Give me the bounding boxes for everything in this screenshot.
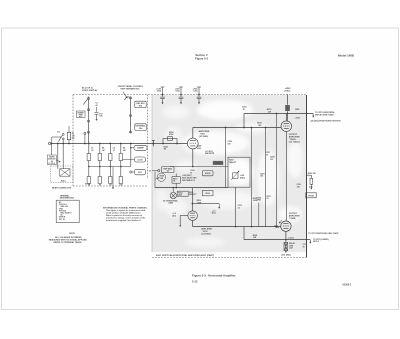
wire grid branch right — [192, 203, 219, 205]
label OUTPUT AMPLIFIER V202A — [289, 134, 300, 144]
svg-text:39: 39 — [303, 246, 305, 248]
junction feedback top — [276, 113, 278, 115]
junction cathode node — [192, 166, 194, 168]
svg-text:SEE NOTE: SEE NOTE — [205, 153, 215, 155]
node board edge terminal — [158, 170, 160, 172]
svg-text:15: 15 — [266, 154, 268, 156]
switch S2 wiper arm — [83, 99, 87, 105]
wire S1 branch to bus — [51, 137, 53, 144]
svg-text:SEE TABLE 5-2: SEE TABLE 5-2 — [182, 179, 195, 182]
resistor R226 label — [257, 197, 262, 201]
junction H7 at gain pot — [172, 187, 174, 189]
svg-text:1M: 1M — [164, 149, 167, 151]
resistor R217 label — [229, 160, 237, 164]
capacitor C209 label — [227, 141, 231, 145]
junction H10 at board edge — [306, 239, 308, 241]
svg-text:(DC): (DC) — [172, 215, 176, 217]
switch S2 contact 1 — [88, 97, 90, 99]
svg-text:NOTE: NOTE — [69, 233, 75, 235]
resistor R227 grid squiggle — [274, 225, 279, 228]
junction H10 at plate — [285, 239, 287, 241]
resistor R214 (plate load, dark) — [285, 105, 290, 111]
wire left riser to H7 — [154, 172, 156, 188]
wire R210 top lead — [175, 173, 177, 176]
wire divider branch 3 to tie line — [109, 161, 111, 167]
wire divider branch 2 lower — [99, 167, 101, 177]
signal label LOCK — [134, 157, 145, 162]
svg-text:14: 14 — [149, 169, 151, 172]
switch S2 contact 3 — [88, 120, 90, 122]
wire lower output line H10 — [244, 239, 310, 241]
capacitor C217 label — [303, 244, 307, 248]
label box PRESET R10 — [76, 111, 85, 117]
junction on input bus — [99, 143, 101, 145]
svg-text:+65 (DEC) FROM HORIZ POSITION: +65 (DEC) FROM HORIZ POSITION — [310, 120, 341, 122]
pot R208 label — [160, 176, 164, 180]
voltage table box — [56, 200, 79, 222]
label box SWP MAG — [162, 167, 175, 173]
resistor lower divider 4 — [119, 177, 122, 184]
wire bus to rear connector pin 1 — [57, 144, 59, 169]
resistor R202 label — [169, 132, 174, 136]
pot R208 wiper — [155, 178, 158, 179]
svg-text:5-13: 5-13 — [192, 279, 198, 283]
svg-text:NORM: NORM — [205, 173, 211, 175]
board right edge — [306, 95, 308, 258]
resistor R220 label — [197, 200, 202, 204]
wire +250V down to R214 — [287, 95, 289, 105]
wire S2 extra contact to bus — [84, 134, 86, 143]
wire V201 plate up — [192, 128, 194, 139]
wire EXT terminal to label — [132, 171, 134, 173]
switch S2 wafer line — [88, 97, 90, 144]
junction V203 grid node — [192, 203, 194, 205]
wire cathode to feedback box — [193, 166, 228, 168]
label AMPLIFIER V201 — [199, 130, 210, 138]
pot terminal bottom — [130, 131, 132, 133]
wire lower signal line H9 — [193, 226, 281, 228]
junction feedback bottom — [276, 226, 278, 228]
label box right row 2 — [202, 191, 213, 196]
capacitor C4 label — [190, 170, 194, 174]
A201 amplifier board shaded area — [152, 95, 306, 252]
wire divider branch 2 to tie line — [99, 161, 101, 167]
feedthrough capacitor C205 — [179, 87, 184, 102]
wire V202A cathode long vertical — [285, 132, 287, 222]
resistor R201 label — [164, 146, 169, 150]
node input terminal — [49, 142, 51, 144]
select note text — [182, 175, 197, 182]
svg-text:SELECT: SELECT — [229, 162, 237, 164]
wire R1 top lead — [68, 126, 70, 132]
wire stem to gain adjust pot — [172, 188, 174, 193]
tube V203 — [188, 211, 198, 221]
capacitor C2 branch — [95, 103, 97, 107]
capacitor C216 label — [296, 184, 300, 188]
resistor R210 — [172, 177, 180, 184]
svg-text:(1/2 5965): (1/2 5965) — [201, 234, 210, 236]
svg-text:47: 47 — [95, 104, 97, 107]
resistor R213 label — [189, 192, 197, 196]
arrow output right tick — [312, 114, 314, 117]
switch S2 extra contact — [84, 132, 86, 134]
tube V201 — [187, 138, 198, 149]
svg-text:2500: 2500 — [178, 195, 182, 197]
wire SWEEP oval tap — [131, 147, 134, 149]
svg-text:A201 VERTICAL/HORIZONTAL AMPLI: A201 VERTICAL/HORIZONTAL AMPLIFIER ASSY … — [156, 254, 214, 257]
svg-text:(1 OF 2): (1 OF 2) — [49, 163, 56, 165]
resistor R1 value label — [72, 133, 75, 140]
pot wiper arc — [124, 97, 129, 100]
svg-text:C205: C205 — [175, 91, 179, 93]
svg-text:.01: .01 — [113, 150, 116, 152]
wire divider branch 3 upper — [109, 144, 111, 154]
feedback network box — [228, 157, 250, 187]
wire H9 to H10 connector — [243, 227, 245, 240]
wire V202A plate to output line — [285, 114, 287, 121]
junction R222 bottom — [251, 226, 253, 228]
capacitor C209 vertical branch — [225, 128, 227, 188]
node EXT terminal — [130, 171, 132, 173]
svg-text:R10: R10 — [79, 116, 82, 118]
resistor R228 label — [253, 235, 257, 239]
tube V202A — [281, 121, 292, 132]
board bottom boundary (dashed) — [152, 257, 306, 259]
wire cathode horizontal — [170, 166, 193, 168]
test point TP201 (dark box) — [213, 161, 223, 165]
potentiometer R15 line — [130, 97, 132, 134]
NOTE body — [49, 236, 88, 244]
junction divider tie 3 — [110, 166, 112, 168]
junction C213 top — [265, 127, 267, 129]
feedthrough capacitor C206 — [197, 87, 202, 102]
wire V202B plate down — [285, 231, 287, 239]
svg-text:TP202: TP202 — [308, 196, 315, 198]
svg-text:R218: R218 — [205, 193, 209, 195]
wire H7 down to V203 — [191, 188, 193, 211]
resistor R230 external stub — [306, 175, 311, 178]
switch S1 arm — [58, 135, 62, 142]
svg-text:SWP VERNIER R15: SWP VERNIER R15 — [120, 88, 140, 90]
pot terminal top — [130, 97, 132, 99]
junction divider tie 1 — [88, 166, 90, 168]
label AMPLIFIER V203 — [201, 228, 212, 236]
front panel control label — [118, 85, 144, 91]
resistor R17 label — [99, 113, 103, 117]
+250V supply entry label — [285, 88, 292, 92]
wire S1 lower contact to bus — [62, 140, 64, 144]
junction on input bus — [84, 143, 86, 145]
resistor R222 vertical branch — [251, 128, 253, 227]
wire lower bus H7 — [155, 187, 228, 189]
wire divider branch 4 lower — [120, 167, 122, 177]
shield dashed box right edge — [147, 95, 149, 180]
svg-text:.01: .01 — [266, 198, 269, 200]
svg-text:REAR CONNECTOR: REAR CONNECTOR — [52, 186, 72, 189]
resistor R1 — [67, 132, 70, 139]
resistor R202 bypass network — [163, 137, 177, 144]
svg-text:100: 100 — [227, 144, 230, 146]
component R6 2M — [119, 154, 122, 161]
svg-text:.01: .01 — [238, 207, 241, 209]
resistor R222 label — [253, 198, 258, 202]
wire LOCK oval tap — [123, 159, 135, 161]
svg-text:(DEC): (DEC) — [240, 177, 245, 179]
resistor R217 (in feedback box) — [233, 173, 238, 179]
junction on input bus — [68, 143, 70, 145]
svg-text:1000: 1000 — [197, 148, 201, 150]
label OUTPUT AMPLIFIER V202B — [289, 213, 300, 220]
resistor R224 label — [270, 156, 274, 161]
junction supply/plate line — [287, 113, 289, 115]
junction divider tie 2 — [99, 166, 101, 168]
capacitor C213 label — [266, 196, 270, 200]
svg-text:V202B: V202B — [289, 218, 296, 220]
svg-text:+100V: +100V — [295, 118, 301, 120]
header center text Section V / Figure 5-3 — [195, 53, 208, 60]
wire V203 cathode down — [192, 220, 194, 226]
wire divider branch 4 upper — [120, 144, 122, 154]
junction on input bus — [88, 143, 90, 145]
svg-text:EXT IN: EXT IN — [59, 219, 65, 221]
chassis top boundary (dashed) — [73, 94, 306, 96]
wire R1 bottom lead — [68, 140, 70, 144]
switch S2 contact 2 — [88, 109, 90, 111]
test point box TP202 — [306, 193, 316, 198]
wire plate line H3 — [193, 127, 281, 129]
svg-text:L201: L201 — [289, 248, 293, 250]
svg-text:Section V: Section V — [195, 53, 207, 57]
label A2 HORIZONTAL GAIN — [163, 199, 179, 204]
junction R222 top — [251, 127, 253, 129]
svg-text:C204: C204 — [157, 90, 161, 93]
svg-text:instruments supplied. See Sec: instruments supplied. See Section V. — [106, 219, 141, 222]
wire bus drop to S2 label box — [51, 144, 53, 156]
wire divider branch 2 upper — [99, 144, 101, 154]
junction feedback/H9 — [235, 226, 237, 228]
junction on input bus — [130, 143, 132, 145]
wire divider branch 1 upper — [88, 144, 90, 154]
junction on input bus — [176, 143, 178, 145]
junction on input bus — [51, 143, 53, 145]
junction on input bus — [152, 143, 154, 145]
capacitor C213 vertical branch — [265, 128, 267, 227]
resistor lower divider 3 — [109, 177, 112, 184]
svg-text:REFER TO TERMINAL TABLE.: REFER TO TERMINAL TABLE. — [53, 241, 82, 244]
junction on input bus — [162, 143, 164, 145]
resistor R215 label — [267, 109, 272, 113]
svg-text:SELECT: SELECT — [189, 194, 197, 196]
resistor R216 label — [257, 123, 262, 127]
wire H2 to H3 connector — [243, 114, 245, 128]
resistor lower divider 2 — [98, 177, 101, 184]
svg-text:(DC): (DC) — [212, 213, 216, 215]
resistor R223 label — [260, 173, 264, 177]
wire divider branch 5 — [130, 144, 132, 167]
shield dashed box bottom edge — [73, 185, 148, 187]
junction H2/H3 connector — [243, 127, 245, 129]
svg-text:S2-1A: S2-1A — [85, 182, 91, 185]
annotation lower — [313, 239, 329, 243]
svg-text:+0 (DC): +0 (DC) — [288, 237, 295, 239]
label box HORIZ DISPLAY S2 — [47, 155, 56, 165]
bias note label — [205, 151, 215, 155]
resistor lower divider 1 — [87, 177, 90, 184]
svg-text:.001: .001 — [296, 186, 300, 188]
svg-text:SWEEP: SWEEP — [137, 148, 145, 150]
wire divider tie line — [89, 166, 131, 168]
switch S2 contact 4 — [88, 131, 90, 133]
arrow from label box — [56, 160, 59, 162]
adjustment pot R211 (circle with X) — [170, 192, 176, 198]
svg-text:C206: C206 — [193, 91, 197, 93]
label box EXT CAL — [135, 124, 147, 131]
signal label EXT — [134, 169, 145, 175]
svg-text:(1/2 12AU7): (1/2 12AU7) — [289, 140, 300, 143]
component C4 .01 — [109, 154, 112, 161]
junction on input bus — [62, 143, 64, 145]
text +1.5 DC — [212, 210, 216, 214]
svg-text:DESIGNATIONS: DESIGNATIONS — [60, 197, 75, 200]
svg-text:A2A1: A2A1 — [61, 179, 67, 182]
arrow lower output tick — [309, 240, 311, 243]
svg-text:TO CRT HORIZONTAL DEFL PLATE: TO CRT HORIZONTAL DEFL PLATE — [308, 232, 339, 235]
svg-text:5%: 5% — [72, 138, 75, 140]
svg-text:MOD 2: MOD 2 — [313, 241, 319, 243]
junction H2 at board edge — [306, 113, 308, 115]
wire output line H2 — [244, 113, 313, 115]
shield dashed box left edge — [72, 95, 74, 187]
switch S2 wafer label — [82, 87, 98, 92]
svg-text:(1/2 5965): (1/2 5965) — [199, 136, 208, 138]
junction on input bus — [120, 143, 122, 145]
note paragraph — [103, 206, 147, 222]
svg-text:R230 15K: R230 15K — [308, 173, 317, 175]
tube V202B — [281, 221, 291, 231]
svg-text:470K: 470K — [169, 133, 174, 136]
component C3 .05 — [87, 154, 90, 161]
capacitor C208 label — [197, 146, 202, 150]
annotation TO CRT right plate — [315, 111, 336, 117]
label box right row 1 — [202, 171, 213, 176]
svg-text:DEFLECTION PLATE: DEFLECTION PLATE — [315, 113, 334, 116]
switch S1 contacts — [62, 133, 64, 135]
svg-text:L201 (SEL): L201 (SEL) — [281, 255, 291, 257]
rear connector dashed outline — [51, 166, 74, 183]
signal label SWEEP — [134, 145, 147, 150]
junction C209 top — [225, 127, 227, 129]
delay line L201 — [285, 240, 287, 252]
svg-text:R225: R225 — [295, 109, 299, 111]
svg-text:470K: 470K — [257, 199, 262, 202]
svg-text:15: 15 — [243, 109, 245, 111]
resistor R212 — [177, 191, 188, 196]
wire feedback box to H9 — [235, 187, 237, 226]
svg-text:S3: S3 — [167, 171, 169, 173]
svg-text:Figure 5-3: Figure 5-3 — [195, 57, 208, 61]
wire S1 branch left — [52, 136, 62, 138]
svg-text:LOCK: LOCK — [137, 159, 143, 161]
potentiometer R208 — [157, 173, 165, 181]
connector A2A1 (box with X) — [60, 169, 70, 177]
pot arrow across R217 — [231, 171, 238, 180]
ground stub below divider — [112, 167, 114, 188]
svg-text:.05: .05 — [91, 150, 94, 152]
wire divider branch 4 to tie line — [120, 161, 122, 167]
voltage table title — [60, 194, 75, 199]
wire divider branch 1 lower — [88, 167, 90, 177]
feedthrough capacitor C204 — [160, 87, 165, 102]
wire terminal to edge — [152, 170, 158, 172]
pot terminal middle — [130, 115, 132, 117]
wire R210 bottom lead — [175, 183, 177, 187]
board left edge — [151, 95, 153, 252]
wire R214 to plate line — [287, 111, 289, 121]
junction H7 at R210 — [175, 187, 177, 189]
label box BAL ADJ R14 — [135, 101, 146, 107]
svg-text:GAIN: GAIN — [168, 202, 173, 205]
svg-text:01505-1: 01505-1 — [343, 284, 352, 287]
arrow label to tube — [280, 220, 282, 222]
svg-text:Model 160B: Model 160B — [338, 54, 354, 58]
svg-text:(DEC): (DEC) — [285, 91, 291, 93]
capacitor C210 label — [242, 107, 247, 111]
svg-text:47: 47 — [190, 171, 192, 174]
wire main horizontal input bus — [51, 143, 188, 145]
svg-text:TP201: TP201 — [215, 163, 222, 165]
resistor R226 branch — [258, 203, 260, 227]
feedback box note text — [240, 175, 245, 179]
wire V201 cathode down — [192, 149, 194, 167]
wire feedback vertical V202A plate to V202B grid — [276, 114, 278, 227]
delay line label — [289, 242, 296, 249]
wire divider branch 1 to tie line — [88, 161, 90, 167]
svg-text:100K: 100K — [197, 202, 202, 204]
wire divider branch 3 lower — [109, 167, 111, 177]
label under lower divider boxes — [88, 185, 123, 187]
component R5 1M — [98, 154, 101, 161]
wire branch tick down — [218, 204, 220, 208]
svg-text:Figure 5-3. Horizontal Amplif: Figure 5-3. Horizontal Amplifier — [192, 274, 236, 278]
resistor R221 label — [172, 213, 176, 217]
junction divider tie 4 — [120, 166, 122, 168]
junction on input bus — [57, 143, 59, 145]
junction on input bus — [109, 143, 111, 145]
wire V203 grid left with arrow — [180, 216, 188, 226]
capacitor C212 label — [238, 205, 242, 209]
wire bus to rear connector pin 2 — [62, 144, 64, 169]
arrow from label to pot — [123, 92, 127, 98]
svg-text:HORIZ DISPLAY: HORIZ DISPLAY — [82, 89, 98, 92]
board input terminal — [152, 141, 155, 147]
capacitor C211 label — [266, 152, 270, 156]
